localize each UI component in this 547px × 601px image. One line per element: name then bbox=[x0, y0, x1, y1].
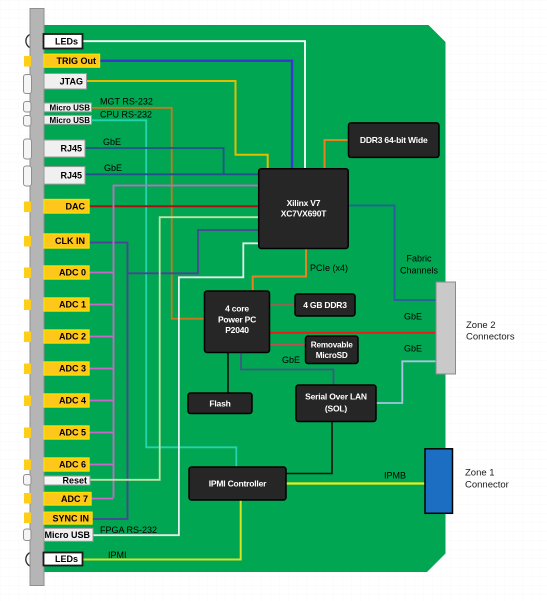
wire ADC7 bbox=[91, 498, 114, 500]
svg-text:TRIG Out: TRIG Out bbox=[57, 56, 97, 66]
svg-text:ADC 7: ADC 7 bbox=[61, 494, 88, 504]
svg-text:Micro USB: Micro USB bbox=[50, 116, 91, 125]
connector CLK IN bbox=[44, 234, 89, 248]
connector Reset bbox=[44, 476, 90, 485]
svg-text:GbE: GbE bbox=[282, 355, 300, 365]
svg-text:GbE: GbE bbox=[103, 137, 121, 147]
svg-text:GbE: GbE bbox=[404, 312, 422, 322]
svg-text:Removable: Removable bbox=[311, 341, 354, 350]
wire GbE P2040 to SOL bbox=[241, 353, 334, 386]
block Serial Over LAN (SOL) bbox=[296, 385, 376, 422]
svg-text:GbE: GbE bbox=[104, 163, 122, 173]
LED circle bottom bbox=[26, 552, 41, 567]
connector Micro USB 1 bbox=[44, 103, 92, 112]
stub ADC 3 bbox=[24, 364, 31, 375]
connector TRIG Out bbox=[44, 54, 100, 67]
block IPMI Controller bbox=[189, 467, 286, 500]
svg-text:SYNC IN: SYNC IN bbox=[52, 513, 89, 523]
svg-text:(SOL): (SOL) bbox=[325, 404, 348, 414]
connector Micro USB 3 bbox=[44, 528, 93, 541]
svg-text:XC7VX690T: XC7VX690T bbox=[281, 209, 327, 219]
stub JTAG bbox=[24, 75, 32, 94]
wire GbE RJ45-1 navy bbox=[85, 148, 224, 174]
svg-text:Serial Over LAN: Serial Over LAN bbox=[305, 392, 367, 402]
svg-text:ADC 3: ADC 3 bbox=[59, 364, 86, 374]
svg-text:Power PC: Power PC bbox=[218, 315, 256, 325]
wire Fabric Channels navy bbox=[348, 206, 436, 301]
block 4 core Power PC P2040 bbox=[205, 291, 270, 353]
wire P2040 to MicroSD bbox=[270, 344, 306, 346]
svg-text:LEDs: LEDs bbox=[55, 36, 78, 46]
stub TRIG Out bbox=[24, 56, 31, 67]
svg-text:ADC 2: ADC 2 bbox=[59, 332, 86, 342]
svg-text:Zone 2: Zone 2 bbox=[466, 320, 496, 331]
connector SYNC IN bbox=[44, 512, 92, 524]
wire ADC5 bbox=[89, 432, 114, 434]
svg-text:FPGA RS-232: FPGA RS-232 bbox=[100, 525, 157, 535]
svg-text:RJ45: RJ45 bbox=[60, 144, 82, 154]
connector ADC 0 bbox=[44, 266, 89, 279]
wire LEDs white to Xilinx top bbox=[83, 41, 306, 169]
svg-text:CPU RS-232: CPU RS-232 bbox=[100, 109, 152, 119]
connector RJ45 1 bbox=[44, 140, 85, 157]
wire purple branch to Xilinx bbox=[128, 230, 259, 273]
svg-text:RJ45: RJ45 bbox=[60, 171, 82, 181]
svg-text:Connectors: Connectors bbox=[466, 332, 515, 343]
stub ADC 1 bbox=[24, 300, 31, 311]
connector ADC 2 bbox=[44, 330, 89, 343]
stub SYNC IN bbox=[24, 513, 31, 524]
wire DAC dark red bbox=[89, 205, 259, 207]
wire ADC3 bbox=[89, 368, 114, 370]
stub ADC 0 bbox=[24, 268, 31, 279]
stub Micro USB 1 bbox=[24, 102, 32, 113]
wire ADC2 bbox=[89, 336, 114, 338]
wire JTAG yellow bbox=[87, 81, 268, 169]
block Flash bbox=[188, 393, 252, 414]
wire IPMB bbox=[286, 482, 425, 484]
connector ADC 4 bbox=[44, 394, 89, 407]
svg-text:LEDs: LEDs bbox=[55, 554, 78, 564]
connector ADC 1 bbox=[44, 298, 89, 311]
svg-text:Reset: Reset bbox=[62, 476, 87, 486]
svg-text:Channels: Channels bbox=[400, 266, 439, 276]
stub ADC 5 bbox=[24, 428, 31, 439]
svg-text:Micro USB: Micro USB bbox=[50, 103, 91, 112]
wire GbE RJ45-2 navy bbox=[85, 173, 259, 175]
block Xilinx V7 bbox=[259, 169, 349, 249]
svg-text:Zone 1: Zone 1 bbox=[465, 468, 495, 479]
wire ADC4 bbox=[89, 400, 114, 402]
LED circle top bbox=[26, 34, 41, 49]
svg-text:DAC: DAC bbox=[66, 201, 86, 211]
svg-text:4 core: 4 core bbox=[225, 304, 249, 314]
stub RJ45 1 bbox=[24, 139, 32, 159]
stub ADC 7 bbox=[24, 493, 31, 504]
svg-text:MicroSD: MicroSD bbox=[316, 351, 348, 360]
connector RJ45 2 bbox=[44, 167, 85, 185]
wire PCIe x4 orange bbox=[253, 249, 306, 292]
wire Reset pale green bbox=[90, 217, 259, 480]
connector ADC 5 bbox=[44, 426, 89, 439]
wire magenta ADC bus bbox=[114, 186, 259, 498]
wire ADC6 bbox=[89, 464, 114, 466]
svg-text:JTAG: JTAG bbox=[60, 76, 83, 86]
connector LEDs bottom bbox=[44, 553, 83, 566]
svg-text:IPMB: IPMB bbox=[384, 471, 406, 481]
connector JTAG bbox=[44, 74, 87, 90]
svg-text:ADC 4: ADC 4 bbox=[59, 396, 86, 406]
wire SOL to IPMI black bbox=[286, 422, 332, 474]
svg-text:Xilinx V7: Xilinx V7 bbox=[287, 198, 321, 208]
svg-text:Micro USB: Micro USB bbox=[44, 530, 90, 540]
svg-text:ADC 5: ADC 5 bbox=[59, 428, 86, 438]
wire red GbE to Zone2 bbox=[270, 332, 437, 334]
connector ADC 6 bbox=[44, 458, 89, 471]
svg-text:ADC 1: ADC 1 bbox=[59, 300, 86, 310]
board PCB outline bbox=[40, 25, 446, 572]
block Removable MicroSD bbox=[306, 336, 359, 364]
wire DDR3 orange bbox=[325, 140, 349, 169]
wire CLK IN / SYNC IN purple trunk bbox=[89, 243, 128, 520]
stub Micro USB 2 bbox=[24, 116, 32, 127]
stub ADC 2 bbox=[24, 332, 31, 343]
Zone 1 connector bbox=[425, 449, 453, 514]
svg-text:PCIe (x4): PCIe (x4) bbox=[310, 263, 348, 273]
svg-text:ADC 0: ADC 0 bbox=[59, 268, 86, 278]
connector ADC 3 bbox=[44, 362, 89, 375]
block 4 GB DDR3 bbox=[295, 294, 355, 316]
svg-text:Flash: Flash bbox=[209, 399, 230, 409]
stub CLK IN bbox=[24, 236, 31, 247]
svg-text:ADC 6: ADC 6 bbox=[59, 460, 86, 470]
svg-text:Fabric: Fabric bbox=[406, 254, 432, 264]
svg-text:4 GB DDR3: 4 GB DDR3 bbox=[303, 300, 347, 310]
wire ADC1 bbox=[89, 304, 114, 306]
wire ADC0 bbox=[89, 272, 114, 274]
stub DAC bbox=[24, 202, 31, 213]
front panel bar bbox=[30, 9, 44, 586]
connector DAC bbox=[44, 200, 89, 214]
svg-text:MGT RS-232: MGT RS-232 bbox=[100, 97, 153, 107]
stub RJ45 2 bbox=[24, 166, 32, 186]
block DDR3 64-bit Wide bbox=[349, 123, 440, 157]
wire TRIG Out blue bbox=[100, 61, 293, 169]
svg-text:CLK IN: CLK IN bbox=[55, 236, 85, 246]
wire MGT RS-232 orange bbox=[92, 108, 205, 319]
wire P2040 to Flash black bbox=[227, 353, 229, 394]
stub ADC 4 bbox=[24, 396, 31, 407]
wire IPMI yellow-green bbox=[83, 500, 241, 560]
wire CPU RS-232 teal bbox=[92, 120, 237, 467]
connector Micro USB 2 bbox=[44, 115, 92, 124]
stub Micro USB 3 bbox=[24, 529, 32, 541]
connector ADC 7 bbox=[44, 493, 91, 506]
stub Reset bbox=[24, 475, 32, 486]
connector LEDs top bbox=[44, 34, 83, 49]
svg-text:IPMI Controller: IPMI Controller bbox=[209, 479, 267, 489]
svg-text:P2040: P2040 bbox=[225, 325, 249, 335]
wire FPGA RS-232 white bbox=[92, 243, 259, 535]
svg-text:GbE: GbE bbox=[404, 344, 422, 354]
Zone 2 connector bar bbox=[436, 282, 456, 374]
svg-text:DDR3 64-bit Wide: DDR3 64-bit Wide bbox=[360, 135, 428, 145]
svg-text:Connector: Connector bbox=[465, 480, 509, 491]
svg-text:IPMI: IPMI bbox=[108, 550, 127, 560]
stub ADC 6 bbox=[24, 460, 31, 471]
wire light blue Zone2 to SOL bbox=[376, 361, 436, 403]
wire P2040 to 4GB DDR3 bbox=[270, 304, 296, 306]
